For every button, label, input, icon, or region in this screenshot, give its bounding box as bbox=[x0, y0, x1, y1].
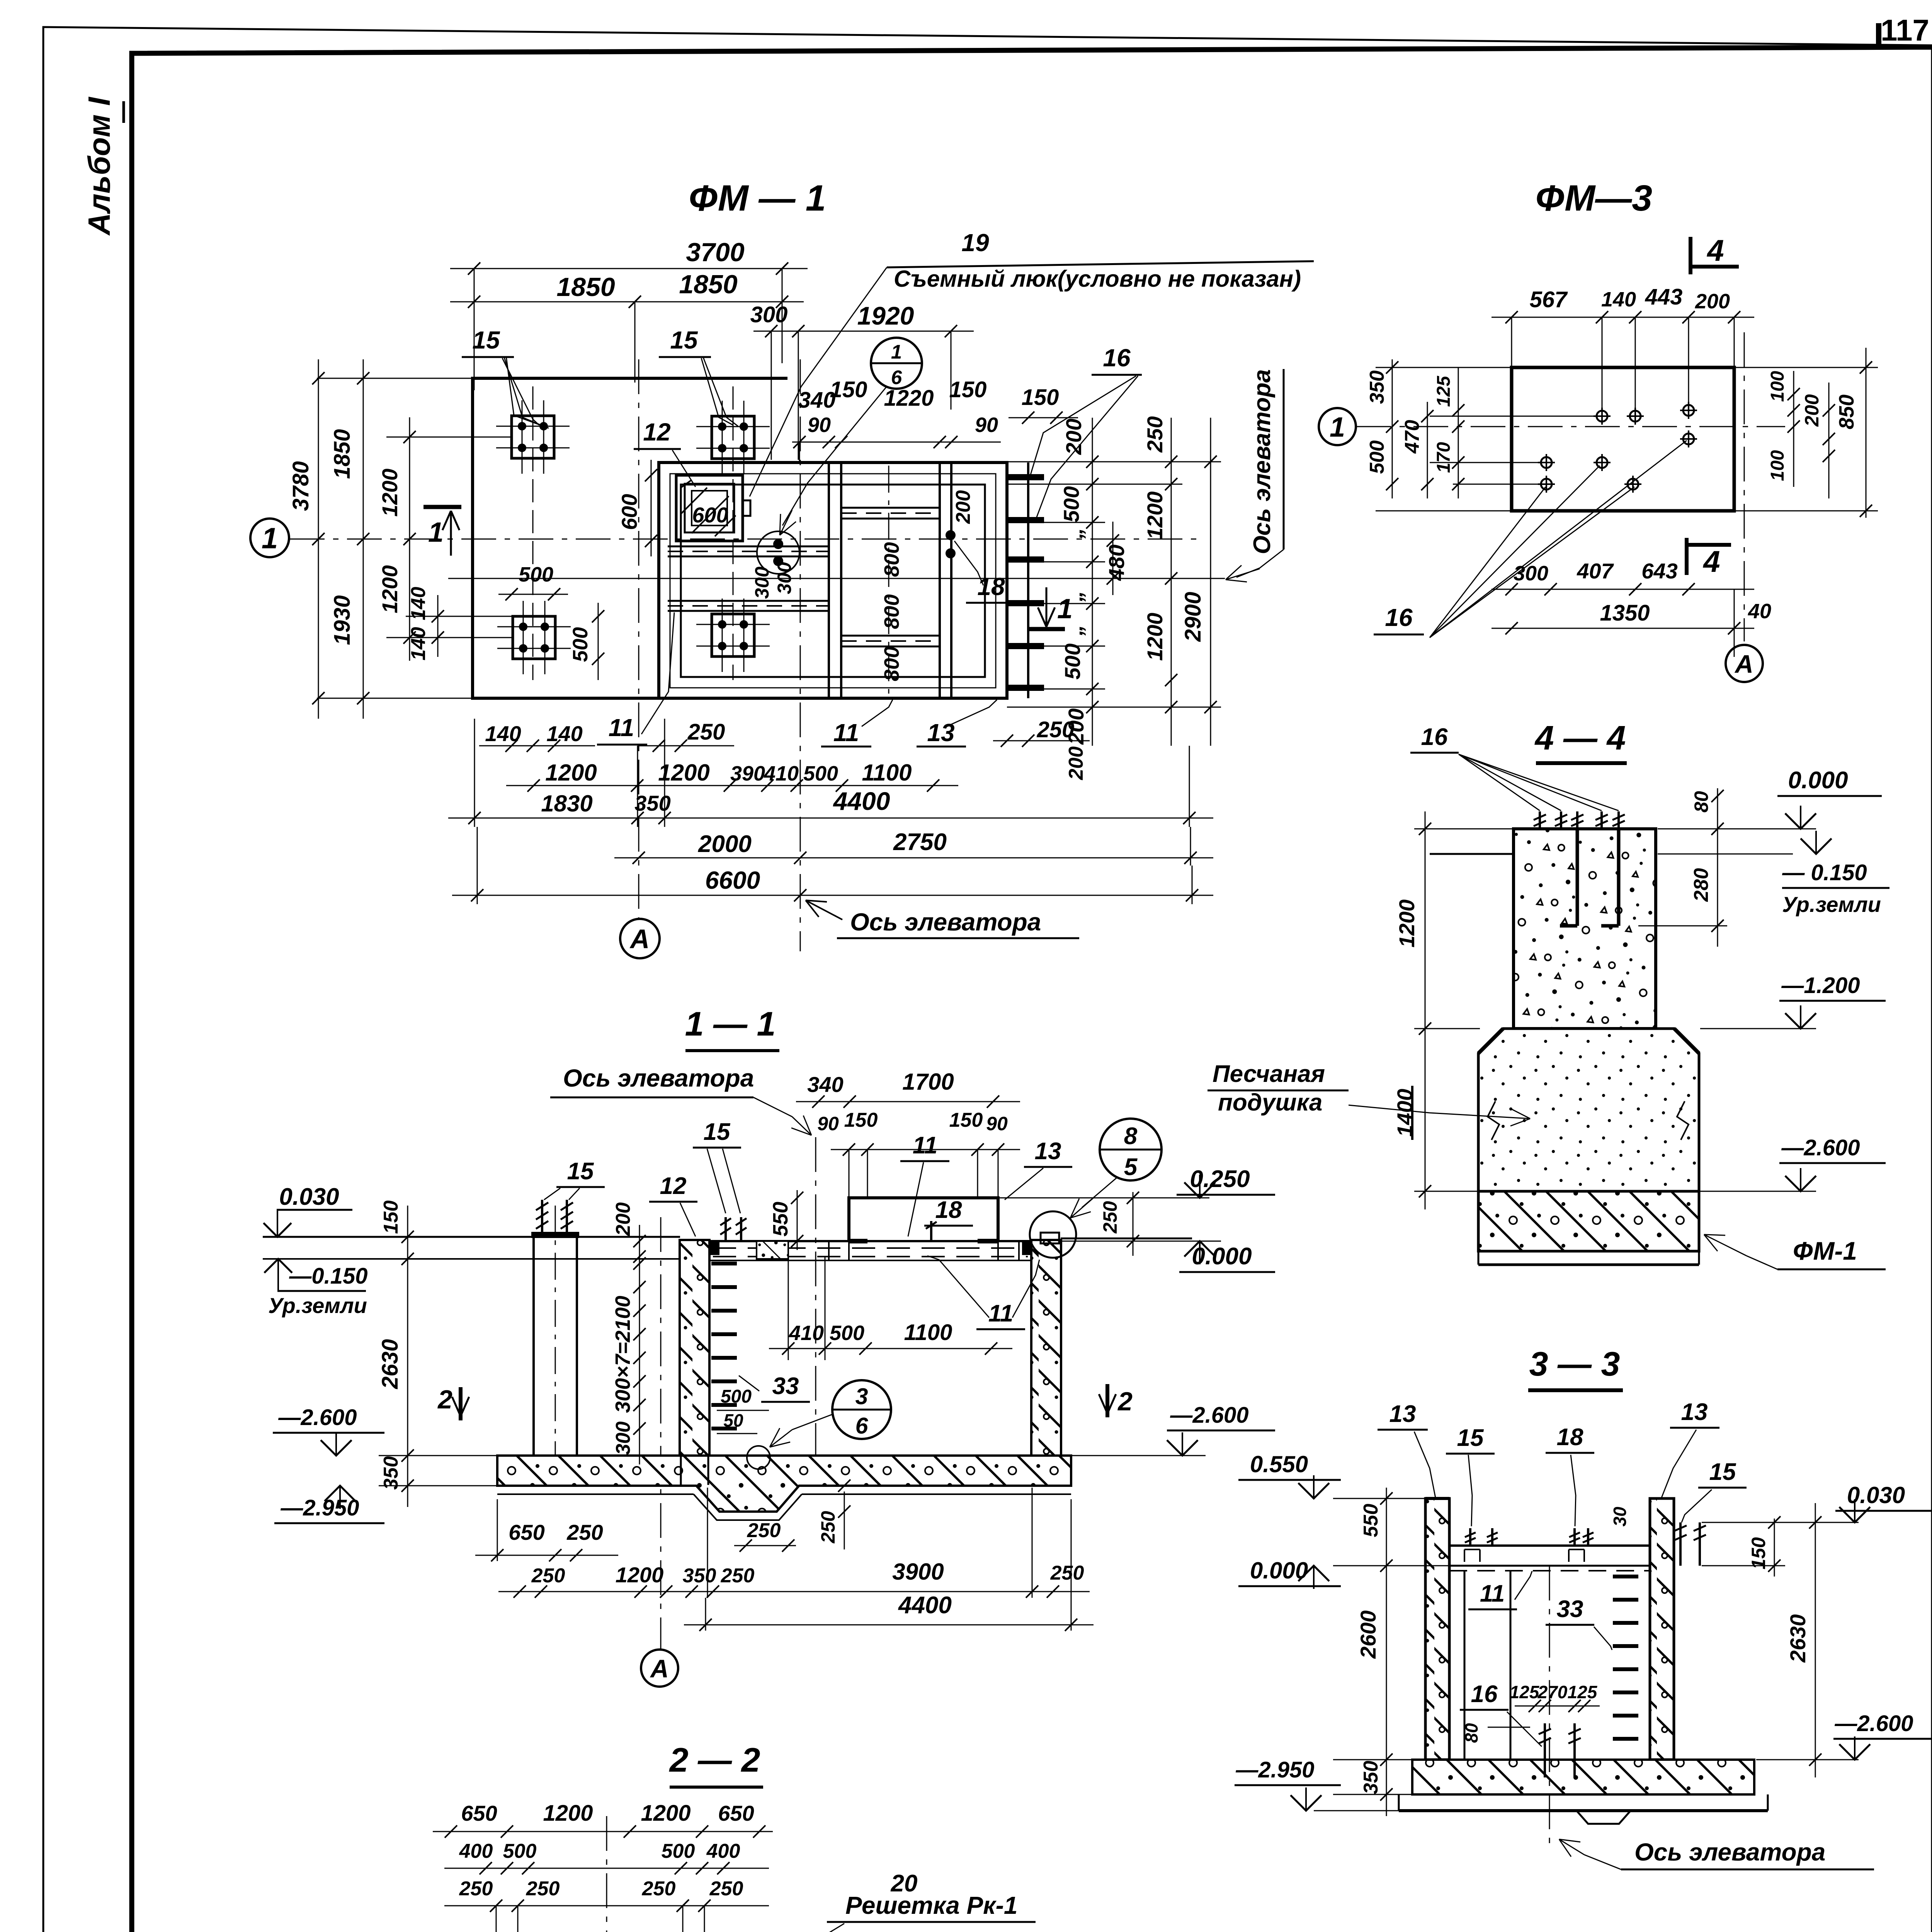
svg-text:6600: 6600 bbox=[705, 866, 760, 894]
svg-text:1930: 1930 bbox=[330, 595, 355, 645]
svg-text:16: 16 bbox=[1385, 604, 1413, 631]
svg-text:12: 12 bbox=[660, 1173, 687, 1199]
FM-1 section mark 1 right bbox=[1028, 627, 1065, 631]
svg-text:1200: 1200 bbox=[378, 565, 402, 614]
svg-text:33: 33 bbox=[1557, 1596, 1583, 1622]
svg-text:800: 800 bbox=[880, 542, 903, 577]
svg-text:2: 2 bbox=[1117, 1387, 1133, 1416]
svg-text:0.550: 0.550 bbox=[1250, 1451, 1308, 1477]
svg-text:340: 340 bbox=[807, 1072, 843, 1097]
svg-text:200: 200 bbox=[952, 490, 975, 524]
3-3 right wall bbox=[1650, 1498, 1674, 1760]
svg-text:0.030: 0.030 bbox=[1847, 1482, 1905, 1508]
svg-text:—2.600: —2.600 bbox=[1834, 1711, 1913, 1736]
FM-1 trench right wall bbox=[939, 463, 941, 698]
3-3 right outer bolts bbox=[1679, 1522, 1682, 1566]
FM-1 vertical axis els bbox=[800, 359, 801, 951]
svg-text:Съемный люк(условно не показан: Съемный люк(условно не показан) bbox=[894, 266, 1301, 292]
svg-text:250: 250 bbox=[747, 1519, 781, 1542]
FM-1 left T-beam upper 11 bbox=[668, 546, 829, 548]
svg-text:Ось элеватора: Ось элеватора bbox=[563, 1064, 754, 1092]
svg-text:350: 350 bbox=[1366, 371, 1388, 404]
svg-text:2600: 2600 bbox=[1356, 1611, 1380, 1659]
svg-text:—2.600: —2.600 bbox=[1781, 1135, 1860, 1160]
svg-text:—2.950: —2.950 bbox=[280, 1495, 359, 1520]
svg-text:140: 140 bbox=[407, 587, 430, 621]
FM-1 bolt squares bbox=[512, 416, 554, 458]
svg-text:30: 30 bbox=[1610, 1507, 1630, 1527]
svg-text:650: 650 bbox=[718, 1801, 754, 1825]
svg-text:4 — 4: 4 — 4 bbox=[1534, 719, 1626, 757]
svg-text:567: 567 bbox=[1530, 287, 1568, 312]
svg-text:650: 650 bbox=[509, 1520, 544, 1544]
svg-text:Ур.земли: Ур.земли bbox=[268, 1293, 367, 1318]
1-1 sump detail circle bbox=[747, 1446, 770, 1469]
FM-3 axis horizontal bbox=[1356, 426, 1785, 427]
FM-1 detail bubble 1/6 bbox=[871, 338, 922, 389]
svg-text:15: 15 bbox=[567, 1158, 594, 1185]
svg-text:15: 15 bbox=[704, 1119, 731, 1145]
svg-text:1850: 1850 bbox=[679, 270, 737, 299]
FM-1 bolt pair detail circle bbox=[757, 531, 799, 574]
1-1 deck bearing pads bbox=[710, 1242, 719, 1255]
svg-text:ФМ — 1: ФМ — 1 bbox=[689, 178, 826, 219]
FM-1 big plate outline bbox=[473, 378, 787, 698]
FM-1 trench center axis bbox=[888, 466, 889, 696]
svg-text:4400: 4400 bbox=[833, 787, 890, 815]
FM-1 trench beam top bbox=[841, 507, 940, 509]
svg-text:Ось элеватора: Ось элеватора bbox=[1634, 1838, 1825, 1866]
svg-text:150: 150 bbox=[1022, 385, 1059, 410]
svg-text:200: 200 bbox=[1065, 747, 1087, 781]
4-4 sand cushion bbox=[1478, 1029, 1699, 1191]
svg-text:800: 800 bbox=[880, 594, 903, 629]
FM-3 bolt circles bbox=[1597, 411, 1607, 422]
FM-1 elevator axis horizontal bbox=[448, 578, 1225, 579]
FM-3 axis vertical bbox=[1744, 332, 1745, 641]
4-4 base bottom line bbox=[1478, 1264, 1699, 1266]
svg-text:400: 400 bbox=[706, 1840, 740, 1862]
1-1 section mark 2 left bbox=[459, 1387, 463, 1420]
svg-text:3: 3 bbox=[855, 1384, 868, 1409]
svg-text:15: 15 bbox=[1709, 1459, 1736, 1485]
svg-text:443: 443 bbox=[1645, 284, 1683, 310]
svg-text:800: 800 bbox=[880, 646, 903, 681]
svg-text:500: 500 bbox=[1060, 643, 1085, 679]
svg-text:Решетка Рк-1: Решетка Рк-1 bbox=[845, 1891, 1017, 1919]
3-3 left wall cap bbox=[1425, 1497, 1449, 1500]
svg-text:550: 550 bbox=[769, 1202, 792, 1236]
svg-text:500: 500 bbox=[662, 1840, 695, 1862]
3-3 inner verticals bbox=[1464, 1571, 1466, 1760]
svg-text:0.250: 0.250 bbox=[1190, 1166, 1250, 1192]
FM-3 section mark 4 top bbox=[1689, 237, 1692, 274]
3-3 deck bolts bbox=[1469, 1528, 1471, 1546]
svg-text:1830: 1830 bbox=[541, 791, 592, 816]
1-1 pit left wall concrete bbox=[680, 1240, 709, 1456]
svg-text:подушка: подушка bbox=[1218, 1089, 1322, 1116]
svg-text:1200: 1200 bbox=[616, 1563, 664, 1587]
4-4 ground line bbox=[1430, 853, 1515, 855]
svg-text:407: 407 bbox=[1577, 559, 1614, 583]
svg-text:350: 350 bbox=[634, 791, 670, 815]
svg-text:А: А bbox=[1734, 650, 1753, 678]
svg-text:300: 300 bbox=[1514, 562, 1548, 585]
svg-text:5: 5 bbox=[1124, 1154, 1138, 1180]
1-1 slab board lines bbox=[497, 1493, 694, 1495]
svg-text:643: 643 bbox=[1641, 559, 1677, 583]
3-3 base center dip dashed bbox=[1577, 1811, 1631, 1824]
svg-text:11: 11 bbox=[913, 1132, 937, 1159]
svg-text:16: 16 bbox=[1103, 344, 1131, 372]
svg-text:650: 650 bbox=[461, 1801, 497, 1825]
svg-text:125: 125 bbox=[1510, 1682, 1540, 1702]
svg-text:100: 100 bbox=[1767, 371, 1788, 402]
1-1 bottom slab with sump bbox=[497, 1456, 1071, 1512]
svg-text:400: 400 bbox=[459, 1840, 493, 1862]
svg-text:— 0.150: — 0.150 bbox=[1782, 860, 1867, 885]
FM-1 vertical axis A bbox=[638, 359, 639, 919]
1-1 wall lines into slab bbox=[680, 1456, 682, 1485]
FM-1 axis bubble 1 left bbox=[250, 519, 289, 557]
FM-3 bolt leader lines horizontal bbox=[1430, 416, 1600, 417]
svg-text:2 — 2: 2 — 2 bbox=[669, 1741, 760, 1779]
svg-text:500: 500 bbox=[830, 1321, 864, 1345]
svg-text:16: 16 bbox=[1471, 1681, 1498, 1708]
1-1 circle A bbox=[641, 1650, 678, 1687]
1-1 ground line left lower bbox=[263, 1258, 680, 1260]
svg-text:2630: 2630 bbox=[378, 1339, 403, 1389]
FM-1 right flange strip bbox=[1027, 463, 1029, 698]
svg-text:ФМ-1: ФМ-1 bbox=[1793, 1236, 1857, 1265]
FM-1 trench left wall bbox=[828, 463, 830, 698]
2-2 vertical axis A bbox=[606, 1816, 607, 1932]
svg-text:1200: 1200 bbox=[378, 469, 402, 517]
3-3 os elevatora bottom bbox=[1549, 1566, 1550, 1843]
svg-text:280: 280 bbox=[1690, 868, 1713, 902]
FM-1 axis circle A bottom bbox=[620, 919, 660, 958]
svg-text:0.000: 0.000 bbox=[1788, 767, 1848, 794]
svg-text:12: 12 bbox=[643, 418, 670, 446]
svg-text:200: 200 bbox=[1695, 290, 1730, 313]
svg-text:1200: 1200 bbox=[543, 1801, 593, 1826]
3-3 left wall bbox=[1425, 1498, 1449, 1760]
svg-text:250: 250 bbox=[526, 1878, 560, 1900]
svg-text:90: 90 bbox=[986, 1113, 1008, 1134]
svg-text:170: 170 bbox=[1434, 442, 1454, 473]
svg-text:„: „ bbox=[1063, 528, 1087, 539]
1-1 ground line right bbox=[1061, 1238, 1192, 1240]
svg-text:850: 850 bbox=[1835, 395, 1858, 429]
FM-1 section mark 1 left bbox=[423, 505, 461, 509]
svg-text:410: 410 bbox=[789, 1321, 824, 1345]
svg-text:18: 18 bbox=[977, 573, 1005, 600]
svg-text:500: 500 bbox=[569, 627, 592, 662]
svg-text:3700: 3700 bbox=[686, 238, 744, 267]
svg-text:350: 350 bbox=[683, 1565, 716, 1587]
1-1 axis A vertical bbox=[660, 1217, 662, 1650]
svg-text:80: 80 bbox=[1690, 791, 1712, 813]
svg-text:15: 15 bbox=[472, 326, 500, 354]
1-1 extension lines bottom bbox=[497, 1499, 498, 1561]
svg-text:13: 13 bbox=[1035, 1138, 1061, 1165]
svg-text:16: 16 bbox=[1421, 724, 1448, 750]
svg-text:250: 250 bbox=[459, 1878, 493, 1900]
1-1 pit right wall concrete bbox=[1031, 1240, 1061, 1456]
svg-text:150: 150 bbox=[1748, 1537, 1769, 1570]
svg-text:250: 250 bbox=[1050, 1562, 1084, 1584]
3-3 deck channel bbox=[1449, 1544, 1650, 1547]
svg-text:200: 200 bbox=[612, 1202, 634, 1236]
svg-text:250: 250 bbox=[531, 1565, 565, 1587]
1-1 grout patch hatched bbox=[757, 1241, 788, 1259]
svg-text:150: 150 bbox=[844, 1109, 878, 1131]
svg-text:250: 250 bbox=[721, 1565, 755, 1587]
FM-3 left extension lines bbox=[1376, 367, 1513, 368]
3-3 base plate bbox=[1399, 1809, 1768, 1812]
svg-text:1850: 1850 bbox=[556, 272, 615, 302]
svg-text:13: 13 bbox=[1681, 1399, 1708, 1425]
svg-text:200: 200 bbox=[1801, 394, 1823, 427]
svg-text:117: 117 bbox=[1881, 13, 1929, 47]
svg-text:250: 250 bbox=[709, 1878, 743, 1900]
svg-text:1850: 1850 bbox=[330, 429, 355, 479]
svg-text:150: 150 bbox=[380, 1201, 402, 1234]
svg-text:„: „ bbox=[1063, 625, 1087, 636]
svg-text:19: 19 bbox=[961, 229, 989, 257]
svg-text:—0.150: —0.150 bbox=[289, 1264, 367, 1289]
svg-text:1920: 1920 bbox=[857, 301, 914, 330]
svg-text:550: 550 bbox=[1360, 1504, 1382, 1537]
svg-text:2750: 2750 bbox=[893, 829, 947, 855]
svg-text:100: 100 bbox=[1767, 450, 1788, 481]
svg-text:140: 140 bbox=[1601, 288, 1636, 311]
FM-1 bolt square centerlines bbox=[532, 386, 534, 680]
1-1 section mark 2 right bbox=[1105, 1384, 1109, 1417]
svg-text:1: 1 bbox=[1057, 594, 1073, 624]
svg-text:1 — 1: 1 — 1 bbox=[685, 1005, 776, 1043]
svg-text:18: 18 bbox=[935, 1197, 962, 1223]
svg-text:6: 6 bbox=[891, 366, 902, 388]
svg-text:300: 300 bbox=[612, 1422, 634, 1455]
svg-text:1200: 1200 bbox=[641, 1801, 690, 1826]
1-1 box pads bbox=[849, 1239, 867, 1243]
svg-text:1: 1 bbox=[1330, 412, 1345, 443]
svg-text:11: 11 bbox=[988, 1300, 1013, 1327]
1-1 left pier bbox=[532, 1237, 535, 1456]
svg-text:350: 350 bbox=[1360, 1761, 1382, 1794]
svg-text:0.030: 0.030 bbox=[279, 1184, 339, 1210]
svg-text:600: 600 bbox=[617, 494, 641, 530]
svg-text:1200: 1200 bbox=[658, 760, 709, 786]
1-1 pier anchor bolts bbox=[541, 1200, 543, 1237]
svg-text:2: 2 bbox=[437, 1385, 452, 1414]
FM-1 left extension lines bbox=[317, 378, 473, 379]
1-1 elevator axis vertical bbox=[815, 1137, 816, 1480]
svg-text:250: 250 bbox=[1037, 717, 1075, 742]
3-3 base slab bbox=[1412, 1760, 1754, 1794]
svg-text:4: 4 bbox=[1702, 544, 1720, 578]
svg-text:Песчаная: Песчаная bbox=[1213, 1061, 1325, 1087]
svg-text:1100: 1100 bbox=[904, 1320, 952, 1345]
svg-text:1: 1 bbox=[428, 517, 444, 548]
svg-text:—2.950: —2.950 bbox=[1235, 1757, 1314, 1782]
svg-text:250: 250 bbox=[566, 1520, 603, 1544]
svg-text:90: 90 bbox=[975, 413, 998, 437]
4-4 bolt tops with ticks bbox=[1539, 811, 1541, 829]
FM-1 lyuk diagonals bbox=[681, 480, 692, 488]
svg-text:90: 90 bbox=[817, 1113, 839, 1134]
svg-text:15: 15 bbox=[670, 326, 698, 354]
1-1 deck lines bbox=[709, 1240, 1031, 1242]
1-1 pier cap plate bbox=[531, 1232, 579, 1238]
4-4 cushion chamfer corners bbox=[1478, 1029, 1503, 1053]
svg-text:410: 410 bbox=[764, 762, 799, 785]
svg-text:2900: 2900 bbox=[1180, 592, 1206, 642]
FM-1 lyuk tab bbox=[743, 500, 750, 516]
svg-text:15: 15 bbox=[1457, 1425, 1484, 1451]
svg-text:270: 270 bbox=[1537, 1682, 1568, 1702]
FM-1 left T-beam lower 11 bbox=[668, 600, 829, 602]
svg-text:1700: 1700 bbox=[902, 1069, 954, 1095]
svg-text:150: 150 bbox=[949, 377, 987, 402]
svg-text:250: 250 bbox=[1099, 1201, 1121, 1234]
svg-text:6: 6 bbox=[855, 1413, 869, 1439]
svg-text:2000: 2000 bbox=[698, 831, 752, 857]
1-1 wall top bolts bbox=[724, 1217, 727, 1241]
svg-text:390: 390 bbox=[730, 762, 765, 785]
svg-text:4400: 4400 bbox=[898, 1592, 952, 1619]
svg-text:200: 200 bbox=[1061, 418, 1086, 455]
svg-text:1200: 1200 bbox=[1395, 900, 1419, 948]
1-1 detail circle at right wall top bbox=[1030, 1211, 1076, 1258]
svg-text:11: 11 bbox=[609, 714, 634, 742]
svg-text:150: 150 bbox=[949, 1109, 983, 1131]
svg-text:1100: 1100 bbox=[862, 760, 912, 786]
svg-text:125: 125 bbox=[1568, 1682, 1598, 1702]
FM-1 pit outer rect bbox=[659, 463, 1007, 698]
svg-text:1200: 1200 bbox=[545, 760, 597, 786]
svg-text:140: 140 bbox=[546, 721, 582, 746]
svg-text:3780: 3780 bbox=[288, 461, 313, 511]
svg-text:500: 500 bbox=[1366, 440, 1388, 474]
svg-text:1220: 1220 bbox=[884, 386, 934, 411]
svg-text:250: 250 bbox=[642, 1878, 676, 1900]
svg-text:125: 125 bbox=[1434, 376, 1454, 407]
svg-text:150: 150 bbox=[830, 377, 867, 402]
svg-text:40: 40 bbox=[1748, 600, 1771, 623]
svg-text:4: 4 bbox=[1706, 233, 1724, 267]
svg-text:13: 13 bbox=[927, 719, 954, 747]
FM-3 circle A bbox=[1726, 645, 1763, 682]
svg-text:3900: 3900 bbox=[892, 1559, 944, 1585]
1-1 ground line left upper bbox=[263, 1236, 680, 1238]
svg-text:—1.200: —1.200 bbox=[1781, 973, 1860, 998]
svg-text:3 — 3: 3 — 3 bbox=[1529, 1345, 1620, 1383]
svg-text:500: 500 bbox=[1059, 486, 1083, 522]
svg-text:11: 11 bbox=[833, 719, 859, 747]
svg-text:33: 33 bbox=[772, 1373, 799, 1400]
4-4 pier concrete bbox=[1514, 829, 1656, 1029]
svg-text:250: 250 bbox=[1143, 416, 1167, 452]
svg-text:1200: 1200 bbox=[1143, 613, 1167, 661]
4-4 J anchor bolts bbox=[1576, 829, 1579, 926]
3-3 ladder rungs bbox=[1613, 1575, 1638, 1578]
svg-text:Альбом I: Альбом I bbox=[82, 97, 116, 236]
svg-text:—2.600: —2.600 bbox=[1170, 1403, 1248, 1428]
svg-text:300: 300 bbox=[750, 302, 788, 327]
svg-text:Ось элеватора: Ось элеватора bbox=[1249, 369, 1276, 554]
svg-text:250: 250 bbox=[817, 1511, 839, 1544]
svg-text:1200: 1200 bbox=[1143, 492, 1167, 540]
svg-text:18: 18 bbox=[1557, 1424, 1583, 1451]
svg-text:8: 8 bbox=[1124, 1123, 1138, 1150]
svg-text:1: 1 bbox=[891, 341, 902, 363]
svg-text:Ось элеватора: Ось элеватора bbox=[850, 908, 1041, 936]
svg-text:140: 140 bbox=[407, 627, 430, 661]
svg-text:500: 500 bbox=[519, 563, 553, 586]
3-3 bottom anchor bolts bbox=[1544, 1723, 1546, 1760]
svg-text:50: 50 bbox=[723, 1410, 743, 1430]
3-3 left extension lines bbox=[1333, 1498, 1427, 1499]
svg-text:1350: 1350 bbox=[1600, 600, 1650, 626]
svg-text:350: 350 bbox=[380, 1456, 402, 1490]
1-1 bolt 18 on deck bbox=[930, 1221, 932, 1241]
FM-3 plate outline bbox=[1512, 367, 1734, 511]
svg-text:А: А bbox=[629, 924, 650, 954]
FM-1 trench beam bottom bbox=[841, 635, 940, 637]
FM-1 bolts 18 on right wall bbox=[946, 530, 956, 540]
svg-text:80: 80 bbox=[1461, 1723, 1481, 1743]
svg-text:500: 500 bbox=[721, 1386, 752, 1407]
1-1 bubble 8/5 bbox=[1100, 1119, 1162, 1180]
svg-text:2630: 2630 bbox=[1786, 1614, 1810, 1663]
svg-text:500: 500 bbox=[803, 762, 838, 785]
svg-text:1: 1 bbox=[262, 522, 278, 555]
svg-text:500: 500 bbox=[503, 1840, 537, 1862]
1-1 bubble 3/6 bbox=[832, 1380, 891, 1439]
FM-1 extension lines right bbox=[1007, 461, 1221, 463]
FM-3 section mark 4 bottom bbox=[1685, 538, 1689, 575]
1-1 elevated box bbox=[849, 1198, 998, 1241]
FM-1 axis 1 horizontal bbox=[290, 539, 1198, 540]
svg-text:—2.600: —2.600 bbox=[278, 1405, 357, 1430]
svg-text:0.000: 0.000 bbox=[1192, 1243, 1252, 1270]
1-1 ladder rungs 33 bbox=[711, 1262, 737, 1265]
svg-text:13: 13 bbox=[1389, 1401, 1416, 1427]
FM-1 pit inner rect bbox=[681, 485, 985, 677]
svg-text:90: 90 bbox=[808, 413, 831, 437]
svg-text:А: А bbox=[650, 1654, 669, 1683]
svg-text:Ур.земли: Ур.земли bbox=[1782, 892, 1881, 917]
FM-1 extension lines bottom bbox=[474, 719, 475, 827]
svg-text:470: 470 bbox=[1401, 420, 1423, 454]
FM-1 hatch square lyuk bbox=[676, 475, 743, 541]
svg-text:300×7=2100: 300×7=2100 bbox=[611, 1296, 634, 1413]
FM-1 pit dashed wall line bbox=[670, 474, 996, 688]
svg-text:ФМ—3: ФМ—3 bbox=[1536, 178, 1652, 219]
svg-text:250: 250 bbox=[687, 719, 725, 745]
svg-text:11: 11 bbox=[1480, 1580, 1505, 1607]
FM-1 channel dashes 16 bbox=[1009, 474, 1044, 480]
4-4 break marks bbox=[1488, 1101, 1499, 1140]
4-4 base hatched bbox=[1478, 1191, 1699, 1251]
